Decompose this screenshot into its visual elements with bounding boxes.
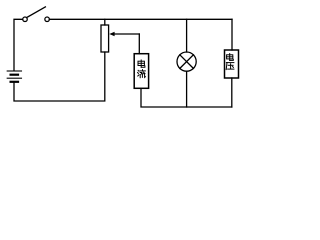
switch S (open knife switch) — [23, 7, 50, 22]
label 压 (bottom char of right box) — [226, 63, 234, 70]
wire voltage-box bottom stub — [231, 78, 233, 107]
wiper arrow of rheostat — [109, 32, 139, 37]
wire lamp top stub — [186, 19, 188, 52]
wire right corner down to voltage-box top — [231, 19, 233, 50]
component box M2 labeled 电压 — [225, 50, 239, 78]
label 流 (bottom char of left box) — [138, 70, 146, 78]
wire rheostat top stub — [104, 19, 106, 25]
component box M1 labeled 电流 — [134, 54, 148, 89]
label 电 (top char of right box) — [227, 54, 234, 61]
wire top rail (switch to right corner) — [49, 18, 232, 20]
wire ammeter-box bottom to bottom-right rail — [141, 89, 232, 108]
wire wiper to ammeter-box top — [138, 34, 140, 54]
lamp L (circle with X) — [177, 52, 196, 71]
wire battery- to bottom-left rail to rheostat bottom — [14, 52, 105, 101]
label 电 (top char of left box) — [138, 60, 145, 67]
wire battery+ to switch (left vertical and short horizontal) — [14, 19, 23, 70]
resistor R (rheostat body) — [101, 25, 109, 52]
battery B (two cells) — [7, 71, 21, 82]
wire lamp bottom stub — [186, 71, 188, 107]
